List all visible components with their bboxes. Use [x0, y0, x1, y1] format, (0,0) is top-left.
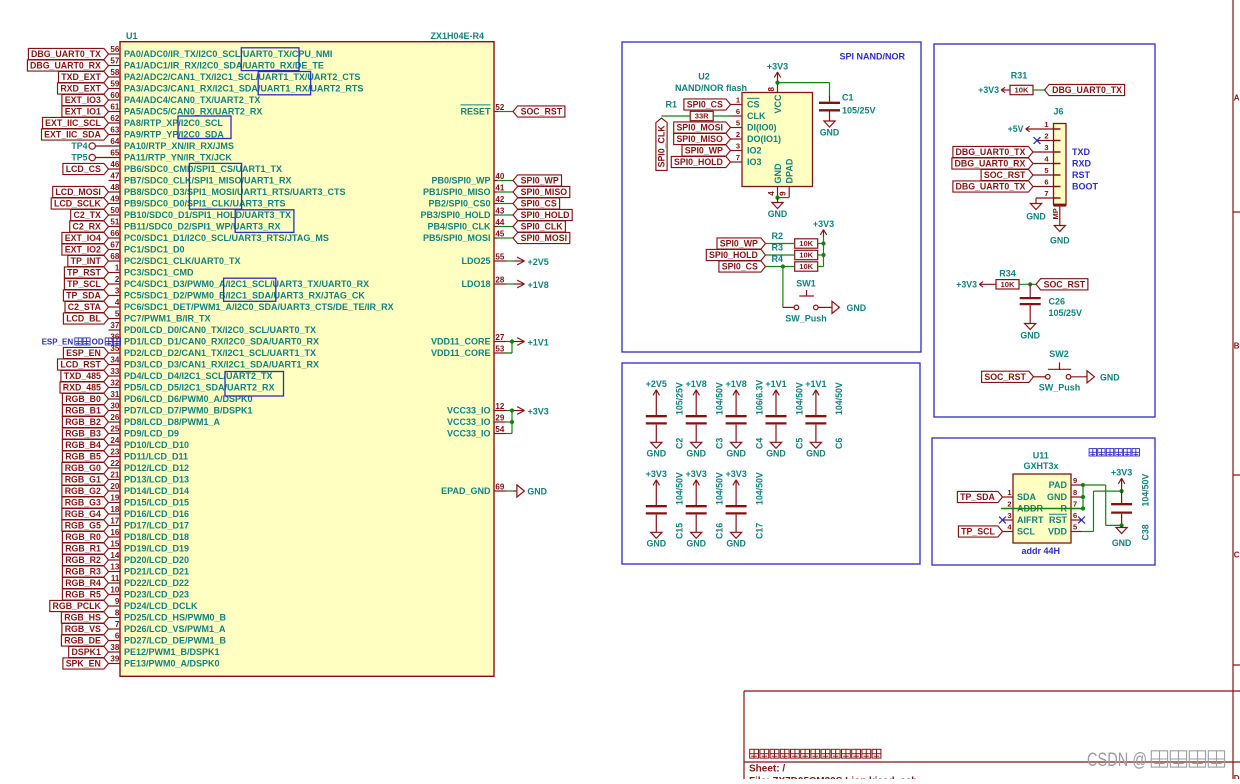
- svg-text:PC6/SDC1_DET/PWM1_A/I2C0_SDA/U: PC6/SDC1_DET/PWM1_A/I2C0_SDA/UART3_CTS/D…: [124, 302, 394, 312]
- svg-text:+3V3: +3V3: [1111, 468, 1132, 478]
- svg-text:IO2: IO2: [747, 146, 762, 156]
- svg-text:SPI0_HOLD: SPI0_HOLD: [709, 250, 758, 260]
- svg-text:RST: RST: [1072, 170, 1091, 180]
- svg-text:104/50V: 104/50V: [715, 472, 725, 505]
- svg-text:7: 7: [736, 153, 740, 162]
- svg-text:D: D: [1234, 774, 1240, 779]
- svg-text:PC0/SDC1_D1/I2C0_SCL/UART3_RTS: PC0/SDC1_D1/I2C0_SCL/UART3_RTS/JTAG_MS: [124, 233, 329, 243]
- svg-text:4: 4: [1007, 523, 1012, 532]
- svg-text:RGB_B0: RGB_B0: [65, 394, 101, 404]
- svg-text:SPI0_MOSI: SPI0_MOSI: [676, 123, 722, 133]
- svg-text:PB10/SDC0_D1/SPI1_HOLD/UART3_T: PB10/SDC0_D1/SPI1_HOLD/UART3_TX: [124, 210, 291, 220]
- svg-text:SPI0_MOSI: SPI0_MOSI: [521, 233, 567, 243]
- svg-text:4: 4: [767, 191, 776, 196]
- svg-text:RGB_R5: RGB_R5: [65, 590, 101, 600]
- svg-text:+1V1: +1V1: [528, 337, 549, 347]
- svg-text:1: 1: [115, 264, 120, 273]
- svg-text:10K: 10K: [1015, 86, 1029, 95]
- svg-text:1: 1: [736, 96, 740, 105]
- svg-text:PB5/SPI0_MOSI: PB5/SPI0_MOSI: [423, 233, 491, 243]
- svg-text:41: 41: [495, 183, 504, 192]
- svg-text:SPI0_HOLD: SPI0_HOLD: [674, 157, 723, 167]
- svg-text:GND: GND: [768, 209, 788, 219]
- svg-text:106/6.3V: 106/6.3V: [754, 380, 764, 415]
- svg-text:TP_RST: TP_RST: [67, 268, 101, 278]
- svg-text:C1: C1: [842, 93, 854, 103]
- svg-text:AIFRT: AIFRT: [1017, 515, 1044, 525]
- svg-text:SPI0_HOLD: SPI0_HOLD: [521, 210, 570, 220]
- svg-text:GND: GND: [1026, 212, 1046, 222]
- svg-text:GND: GND: [1020, 331, 1040, 341]
- svg-text:+3V3: +3V3: [956, 279, 977, 289]
- svg-text:EPAD_GND: EPAD_GND: [441, 486, 491, 496]
- svg-text:EXT_IO4: EXT_IO4: [65, 233, 101, 243]
- svg-text:RGB_R2: RGB_R2: [65, 555, 101, 565]
- svg-text:16: 16: [110, 528, 119, 537]
- svg-text:GND: GND: [773, 163, 783, 184]
- svg-text:GXHT3x: GXHT3x: [1023, 461, 1058, 471]
- svg-text:+3V3: +3V3: [686, 469, 707, 479]
- svg-text:65: 65: [110, 149, 119, 158]
- svg-text:55: 55: [495, 252, 504, 261]
- svg-text:26: 26: [110, 413, 119, 422]
- svg-text:EXT_IO3: EXT_IO3: [65, 95, 101, 105]
- svg-text:SOC_RST: SOC_RST: [521, 107, 563, 117]
- svg-text:PB9/SDC0_D0/SPI1_CLK/UART3_RTS: PB9/SDC0_D0/SPI1_CLK/UART3_RTS: [124, 199, 286, 209]
- svg-text:LCD_SCLK: LCD_SCLK: [54, 199, 102, 209]
- svg-text:2: 2: [1007, 500, 1011, 509]
- svg-text:RGB_B2: RGB_B2: [65, 417, 101, 427]
- svg-text:PB7/SDC0_CLK/SPI1_MISO/UART1_R: PB7/SDC0_CLK/SPI1_MISO/UART1_RX: [124, 176, 292, 186]
- svg-text:R31: R31: [1011, 71, 1028, 81]
- svg-text:25: 25: [110, 425, 119, 434]
- svg-text:8: 8: [115, 609, 120, 618]
- svg-text:RGB_R0: RGB_R0: [65, 532, 101, 542]
- svg-text:PD25/LCD_HS/PWM0_B: PD25/LCD_HS/PWM0_B: [124, 613, 227, 623]
- svg-text:GND: GND: [686, 539, 706, 549]
- svg-text:PD27/LCD_DE/PWM1_B: PD27/LCD_DE/PWM1_B: [124, 636, 227, 646]
- svg-text:VCC33_IO: VCC33_IO: [447, 429, 491, 439]
- svg-text:PD7/LCD_D7/PWM0_B/DSPK1: PD7/LCD_D7/PWM0_B/DSPK1: [124, 406, 253, 416]
- svg-text:30: 30: [110, 402, 119, 411]
- svg-text:VDD11_CORE: VDD11_CORE: [431, 348, 491, 358]
- svg-text:5: 5: [1073, 523, 1077, 532]
- svg-text:+1V8: +1V8: [725, 379, 746, 389]
- svg-text:PD20/LCD_D20: PD20/LCD_D20: [124, 555, 189, 565]
- svg-text:SPI0_MISO: SPI0_MISO: [676, 134, 723, 144]
- svg-text:11: 11: [111, 574, 120, 583]
- svg-text:PC5/SDC1_D2/PWM0_B/I2C1_SDA/UA: PC5/SDC1_D2/PWM0_B/I2C1_SDA/UART3_RX/JTA…: [124, 291, 365, 301]
- svg-text:63: 63: [110, 126, 119, 135]
- svg-text:SOC_RST: SOC_RST: [1044, 279, 1086, 289]
- svg-text:PD26/LCD_VS/PWM1_A: PD26/LCD_VS/PWM1_A: [124, 624, 226, 634]
- svg-text:10K: 10K: [799, 262, 813, 271]
- svg-text:IO3: IO3: [747, 157, 762, 167]
- svg-text:7: 7: [115, 620, 120, 629]
- svg-text:RGB_G1: RGB_G1: [65, 475, 101, 485]
- svg-text:PD13/LCD_D13: PD13/LCD_D13: [124, 475, 189, 485]
- svg-text:EXT_IO2: EXT_IO2: [65, 245, 101, 255]
- svg-text:64: 64: [110, 137, 119, 146]
- svg-text:TP_SDA: TP_SDA: [960, 492, 995, 502]
- svg-text:J6: J6: [1053, 107, 1063, 117]
- svg-text:U2: U2: [698, 72, 710, 82]
- svg-text:GND: GND: [686, 449, 706, 459]
- svg-text:67: 67: [110, 241, 119, 250]
- svg-text:2: 2: [736, 130, 740, 139]
- svg-text:ZX1H04E-R4: ZX1H04E-R4: [430, 31, 484, 41]
- svg-text:PC2/SDC1_CLK/UART0_TX: PC2/SDC1_CLK/UART0_TX: [124, 256, 241, 266]
- svg-text:EXT_IIC_SDA: EXT_IIC_SDA: [44, 130, 101, 140]
- svg-text:69: 69: [495, 482, 504, 491]
- svg-text:21: 21: [110, 471, 119, 480]
- svg-text:PB1/SPI0_MISO: PB1/SPI0_MISO: [423, 187, 491, 197]
- svg-text:R1: R1: [665, 100, 677, 110]
- svg-text:PD24/LCD_DCLK: PD24/LCD_DCLK: [124, 601, 198, 611]
- svg-text:C4: C4: [754, 438, 764, 449]
- svg-text:PD4/LCD_D4/I2C1_SCL/UART2_TX: PD4/LCD_D4/I2C1_SCL/UART2_TX: [124, 371, 273, 381]
- svg-text:R2: R2: [772, 231, 784, 241]
- svg-text:+1V1: +1V1: [805, 379, 826, 389]
- svg-text:DBG_UART0_RX: DBG_UART0_RX: [955, 159, 1026, 169]
- svg-text:LDO18: LDO18: [461, 279, 490, 289]
- svg-text:15: 15: [110, 540, 119, 549]
- svg-text:2: 2: [1044, 132, 1048, 141]
- svg-text:PD19/LCD_D19: PD19/LCD_D19: [124, 544, 189, 554]
- svg-text:54: 54: [495, 425, 504, 434]
- svg-text:SPI0_WP: SPI0_WP: [720, 239, 758, 249]
- svg-text:DPAD: DPAD: [785, 158, 795, 183]
- svg-text:VCC: VCC: [773, 94, 783, 114]
- svg-text:TP_SCL: TP_SCL: [961, 527, 995, 537]
- svg-text:TXD: TXD: [1072, 147, 1091, 157]
- svg-text:6: 6: [1044, 178, 1048, 187]
- svg-text:32: 32: [110, 379, 119, 388]
- svg-text:104/50V: 104/50V: [834, 382, 844, 415]
- svg-text:10K: 10K: [799, 251, 813, 260]
- svg-text:DBG_UART0_TX: DBG_UART0_TX: [1052, 85, 1122, 95]
- svg-text:57: 57: [110, 57, 119, 66]
- svg-text:13: 13: [110, 563, 119, 572]
- svg-text:4: 4: [115, 298, 120, 307]
- svg-text:+3V3: +3V3: [813, 219, 834, 229]
- svg-text:RXD: RXD: [1072, 159, 1092, 169]
- svg-text:LCD_BL: LCD_BL: [66, 314, 101, 324]
- svg-text:VCC33_IO: VCC33_IO: [447, 417, 491, 427]
- svg-text:20: 20: [110, 482, 119, 491]
- svg-text:BOOT: BOOT: [1072, 182, 1099, 192]
- svg-text:PAD: PAD: [1049, 480, 1068, 490]
- svg-text:+1V1: +1V1: [765, 379, 786, 389]
- svg-text:GND: GND: [647, 449, 667, 459]
- svg-text:+1V8: +1V8: [686, 379, 707, 389]
- svg-text:Sheet: /: Sheet: /: [749, 764, 785, 775]
- svg-text:TP_INT: TP_INT: [71, 256, 102, 266]
- svg-text:105/25V: 105/25V: [1049, 308, 1083, 318]
- svg-text:PB6/SDC0_CMD/SPI1_CS/UART1_TX: PB6/SDC0_CMD/SPI1_CS/UART1_TX: [124, 164, 282, 174]
- svg-text:SPI0_WP: SPI0_WP: [685, 146, 723, 156]
- svg-text:VDD11_CORE: VDD11_CORE: [431, 337, 491, 347]
- svg-text:9: 9: [779, 191, 788, 196]
- svg-text:104/50V: 104/50V: [794, 382, 804, 415]
- svg-text:105/25V: 105/25V: [675, 382, 685, 415]
- svg-text:10: 10: [110, 586, 119, 595]
- svg-text:PD9/LCD_D9: PD9/LCD_D9: [124, 429, 179, 439]
- svg-text:PA8/RTP_XP/I2C0_SCL: PA8/RTP_XP/I2C0_SCL: [124, 118, 223, 128]
- svg-text:RGB_G0: RGB_G0: [65, 463, 101, 473]
- svg-text:SOC_RST: SOC_RST: [984, 170, 1026, 180]
- svg-text:DBG_UART0_TX: DBG_UART0_TX: [955, 182, 1025, 192]
- svg-text:PA10/RTP_XN/IR_RX/JMS: PA10/RTP_XN/IR_RX/JMS: [124, 141, 234, 151]
- svg-text:RGB_B5: RGB_B5: [65, 452, 101, 462]
- svg-text:+3V3: +3V3: [767, 61, 788, 71]
- svg-text:SPI0_CS: SPI0_CS: [687, 100, 723, 110]
- svg-text:104/50V: 104/50V: [675, 472, 685, 505]
- svg-text:SPI0_MISO: SPI0_MISO: [521, 187, 568, 197]
- svg-text:SCL: SCL: [1017, 527, 1036, 537]
- svg-text:PE13/PWM0_A/DSPK0: PE13/PWM0_A/DSPK0: [124, 659, 220, 669]
- svg-text:8: 8: [1073, 488, 1077, 497]
- svg-text:RGB_G3: RGB_G3: [65, 498, 101, 508]
- svg-text:PD8/LCD_D8/PWM1_A: PD8/LCD_D8/PWM1_A: [124, 417, 221, 427]
- svg-text:56: 56: [110, 45, 119, 54]
- svg-text:C16: C16: [715, 523, 725, 539]
- svg-text:4: 4: [1044, 155, 1049, 164]
- svg-text:PD21/LCD_D21: PD21/LCD_D21: [124, 567, 189, 577]
- svg-text:35: 35: [110, 344, 119, 353]
- svg-text:C26: C26: [1049, 297, 1066, 307]
- svg-text:EXT_IIC_SCL: EXT_IIC_SCL: [45, 118, 101, 128]
- svg-text:10K: 10K: [1001, 280, 1015, 289]
- svg-text:SPI0_WP: SPI0_WP: [521, 176, 559, 186]
- svg-text:PB3/SPI0_HOLD: PB3/SPI0_HOLD: [420, 210, 491, 220]
- svg-text:LDO25: LDO25: [461, 256, 490, 266]
- svg-text:TP_SDA: TP_SDA: [66, 291, 101, 301]
- svg-text:PD0/LCD_D0/CAN0_TX/I2C0_SCL/UA: PD0/LCD_D0/CAN0_TX/I2C0_SCL/UART0_TX: [124, 325, 316, 335]
- svg-text:GND: GND: [726, 539, 746, 549]
- svg-text:ESP_EN: ESP_EN: [66, 348, 101, 358]
- svg-text:PA5/ADC5/CAN0_RX/UART2_RX: PA5/ADC5/CAN0_RX/UART2_RX: [124, 107, 262, 117]
- svg-text:LCD_CS: LCD_CS: [66, 164, 101, 174]
- svg-text:GND: GND: [820, 128, 840, 138]
- svg-text:RGB_R1: RGB_R1: [65, 544, 101, 554]
- svg-text:GND: GND: [1047, 492, 1068, 502]
- svg-text:PC7/PWM1_B/IR_TX: PC7/PWM1_B/IR_TX: [124, 314, 211, 324]
- svg-text:A: A: [1234, 94, 1240, 103]
- svg-text:7: 7: [1044, 189, 1048, 198]
- svg-text:PA4/ADC4/CAN0_TX/UART2_TX: PA4/ADC4/CAN0_TX/UART2_TX: [124, 95, 260, 105]
- svg-text:GND: GND: [1112, 538, 1132, 548]
- svg-text:DBG_UART0_RX: DBG_UART0_RX: [30, 61, 101, 71]
- svg-text:U1: U1: [126, 31, 138, 41]
- svg-text:RGB_G5: RGB_G5: [65, 521, 101, 531]
- svg-text:SPI0_CLK: SPI0_CLK: [521, 222, 564, 232]
- svg-text:PD15/LCD_D15: PD15/LCD_D15: [124, 498, 189, 508]
- svg-text:PD17/LCD_D17: PD17/LCD_D17: [124, 521, 189, 531]
- svg-text:SW2: SW2: [1049, 349, 1069, 359]
- svg-text:5: 5: [1044, 166, 1048, 175]
- svg-text:C17: C17: [754, 523, 764, 539]
- svg-text:GND: GND: [806, 449, 826, 459]
- svg-text:MP: MP: [1051, 208, 1060, 219]
- svg-text:TP4: TP4: [71, 141, 87, 151]
- svg-text:31: 31: [110, 390, 119, 399]
- svg-text:RGB_HS: RGB_HS: [64, 613, 101, 623]
- svg-text:PB4/SPI0_CLK: PB4/SPI0_CLK: [427, 222, 491, 232]
- svg-text:46: 46: [110, 160, 119, 169]
- svg-text:22: 22: [110, 459, 119, 468]
- svg-text:+3V3: +3V3: [646, 469, 667, 479]
- svg-text:PD12/LCD_D12: PD12/LCD_D12: [124, 463, 189, 473]
- svg-text:PC3/SDC1_CMD: PC3/SDC1_CMD: [124, 268, 194, 278]
- svg-text:SOC_RST: SOC_RST: [984, 372, 1026, 382]
- svg-text:37: 37: [110, 321, 119, 330]
- svg-text:38: 38: [110, 643, 119, 652]
- svg-text:SW1: SW1: [796, 278, 816, 288]
- svg-text:C2: C2: [675, 438, 685, 449]
- svg-text:45: 45: [495, 229, 504, 238]
- svg-text:R3: R3: [772, 242, 784, 252]
- svg-text:28: 28: [495, 275, 504, 284]
- svg-text:C5: C5: [794, 438, 804, 449]
- svg-text:+3V3: +3V3: [978, 85, 999, 95]
- svg-text:PB2/SPI0_CS0: PB2/SPI0_CS0: [428, 199, 490, 209]
- svg-text:PD22/LCD_D22: PD22/LCD_D22: [124, 578, 189, 588]
- svg-text:NAND/NOR flash: NAND/NOR flash: [675, 83, 747, 93]
- svg-text:10K: 10K: [799, 239, 813, 248]
- svg-text:GND: GND: [726, 449, 746, 459]
- svg-text:RGB_G4: RGB_G4: [65, 509, 101, 519]
- svg-text:9: 9: [115, 597, 120, 606]
- svg-text:5: 5: [736, 119, 740, 128]
- svg-text:DSPK1: DSPK1: [72, 647, 101, 657]
- svg-text:TXD_485: TXD_485: [64, 371, 101, 381]
- svg-text:GND: GND: [766, 449, 786, 459]
- svg-text:GND: GND: [527, 487, 547, 497]
- svg-text:27: 27: [495, 333, 504, 342]
- svg-text:33: 33: [110, 367, 119, 376]
- svg-text:C2_STA: C2_STA: [68, 302, 102, 312]
- svg-text:SW_Push: SW_Push: [1039, 383, 1081, 393]
- svg-text:2: 2: [115, 275, 120, 284]
- svg-text:RXD_EXT: RXD_EXT: [60, 84, 101, 94]
- svg-text:RGB_DE: RGB_DE: [64, 636, 101, 646]
- svg-text:GND: GND: [1050, 236, 1070, 246]
- svg-text:39: 39: [110, 655, 119, 664]
- svg-text:VCC33_IO: VCC33_IO: [447, 406, 491, 416]
- svg-text:RGB_R4: RGB_R4: [65, 578, 101, 588]
- svg-text:RGB_B4: RGB_B4: [65, 440, 101, 450]
- svg-text:52: 52: [495, 103, 504, 112]
- svg-text:104/50V: 104/50V: [1141, 474, 1151, 507]
- svg-text:49: 49: [110, 195, 119, 204]
- svg-text:SPI0_CLK: SPI0_CLK: [657, 125, 667, 168]
- svg-text:8: 8: [767, 87, 776, 92]
- svg-text:C: C: [1234, 551, 1240, 560]
- svg-text:40: 40: [495, 172, 504, 181]
- svg-text:PA11/RTP_YN/IR_TX/JCK: PA11/RTP_YN/IR_TX/JCK: [124, 153, 232, 163]
- svg-text:SPI0_CS: SPI0_CS: [722, 262, 758, 272]
- svg-text:6: 6: [115, 632, 120, 641]
- svg-text:PC1/SDC1_D0: PC1/SDC1_D0: [124, 245, 185, 255]
- svg-text:PA2/ADC2/CAN1_TX/I2C1_SCL/UART: PA2/ADC2/CAN1_TX/I2C1_SCL/UART1_TX/UART2…: [124, 72, 360, 82]
- svg-text:RGB_B3: RGB_B3: [65, 429, 101, 439]
- svg-text:EXT_IO1: EXT_IO1: [65, 107, 101, 117]
- svg-text:PD5/LCD_D5/I2C1_SDA/UART2_RX: PD5/LCD_D5/I2C1_SDA/UART2_RX: [124, 383, 275, 393]
- svg-text:GND: GND: [1100, 372, 1120, 382]
- svg-text:104/50V: 104/50V: [715, 382, 725, 415]
- svg-text:17: 17: [110, 517, 119, 526]
- svg-text:104/50V: 104/50V: [754, 472, 764, 505]
- svg-text:18: 18: [110, 505, 119, 514]
- svg-text:RESET: RESET: [460, 107, 491, 117]
- svg-text:SW_Push: SW_Push: [785, 314, 827, 324]
- svg-text:C2_TX: C2_TX: [74, 210, 102, 220]
- svg-text:58: 58: [110, 68, 119, 77]
- svg-text:50: 50: [110, 206, 119, 215]
- svg-text:GND: GND: [847, 303, 867, 313]
- svg-text:3: 3: [115, 287, 120, 296]
- svg-text:RGB_B1: RGB_B1: [65, 406, 101, 416]
- svg-text:66: 66: [110, 229, 119, 238]
- svg-text:C6: C6: [834, 438, 844, 449]
- svg-text:RXD_485: RXD_485: [63, 383, 101, 393]
- svg-text:DI(IO0): DI(IO0): [747, 123, 777, 133]
- svg-text:TP5: TP5: [71, 153, 87, 163]
- svg-text:TP_SCL: TP_SCL: [67, 279, 101, 289]
- svg-text:3: 3: [736, 142, 740, 151]
- svg-text:RGB_R3: RGB_R3: [65, 567, 101, 577]
- svg-text:RST: RST: [1049, 515, 1068, 525]
- svg-text:RGB_PCLK: RGB_PCLK: [53, 601, 102, 611]
- svg-text:DBG_UART0_TX: DBG_UART0_TX: [955, 147, 1025, 157]
- svg-text:SDA: SDA: [1017, 492, 1037, 502]
- svg-text:PD11/LCD_D11: PD11/LCD_D11: [124, 452, 188, 462]
- svg-text:R34: R34: [999, 269, 1016, 279]
- svg-text:7: 7: [1073, 500, 1077, 509]
- svg-text:PA0/ADC0/IR_TX/I2C0_SCL/UART0_: PA0/ADC0/IR_TX/I2C0_SCL/UART0_TX/CPU_NMI: [124, 49, 332, 59]
- svg-text:29: 29: [495, 413, 504, 422]
- svg-text:PD1/LCD_D1/CAN0_RX/I2C0_SDA/UA: PD1/LCD_D1/CAN0_RX/I2C0_SDA/UART0_RX: [124, 337, 319, 347]
- svg-text:34: 34: [110, 356, 119, 365]
- svg-text:+3V3: +3V3: [528, 406, 549, 416]
- svg-text:1: 1: [1007, 488, 1011, 497]
- svg-text:C2_RX: C2_RX: [73, 222, 101, 232]
- svg-text:19: 19: [110, 494, 119, 503]
- svg-text:1: 1: [1044, 120, 1048, 129]
- svg-text:CSDN @: CSDN @: [1087, 750, 1147, 771]
- svg-text:42: 42: [495, 195, 504, 204]
- svg-text:LCD_MOSI: LCD_MOSI: [55, 187, 100, 197]
- svg-text:6: 6: [1073, 511, 1077, 520]
- svg-text:CLK: CLK: [747, 111, 766, 121]
- svg-text:43: 43: [495, 206, 504, 215]
- svg-text:PB8/SDC0_D3/SPI1_MOSI/UART1_RT: PB8/SDC0_D3/SPI1_MOSI/UART1_RTS/UART3_CT…: [124, 187, 346, 197]
- svg-text:RGB_VS: RGB_VS: [65, 624, 101, 634]
- svg-text:14: 14: [110, 551, 119, 560]
- svg-text:+2V5: +2V5: [528, 257, 549, 267]
- svg-text:PD18/LCD_D18: PD18/LCD_D18: [124, 532, 189, 542]
- svg-text:62: 62: [110, 114, 119, 123]
- svg-text:105/25V: 105/25V: [842, 106, 876, 116]
- svg-text:SPI0_CS: SPI0_CS: [521, 199, 557, 209]
- svg-text:48: 48: [110, 183, 119, 192]
- svg-text:36: 36: [110, 333, 119, 342]
- svg-text:3: 3: [1044, 143, 1048, 152]
- svg-text:U11: U11: [1033, 451, 1049, 461]
- svg-text:33R: 33R: [695, 112, 709, 121]
- svg-text:+2V5: +2V5: [646, 379, 667, 389]
